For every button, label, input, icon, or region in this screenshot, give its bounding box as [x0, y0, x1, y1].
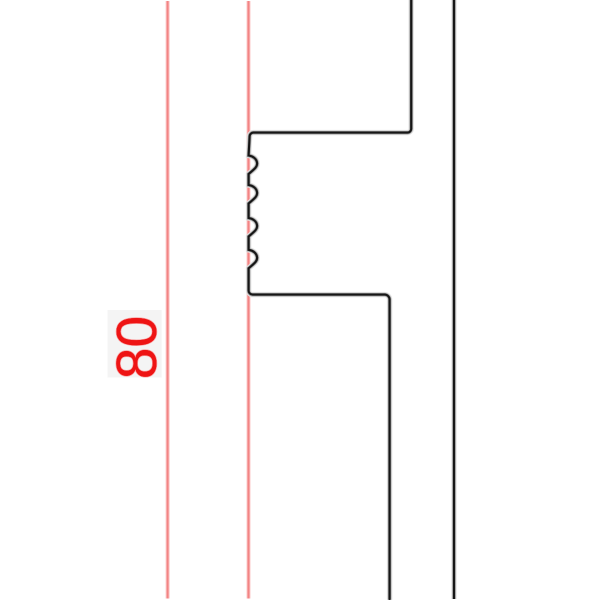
dimension extension line (red, left)	[165, 1, 169, 599]
svg-text:80: 80	[105, 316, 169, 379]
dimension extension line (red, at part edge)	[246, 1, 250, 599]
part outline: stepped profile with wavy break edge	[249, 0, 412, 599]
dimension text background mask	[108, 310, 162, 378]
part outline: right straight edge	[451, 0, 456, 599]
